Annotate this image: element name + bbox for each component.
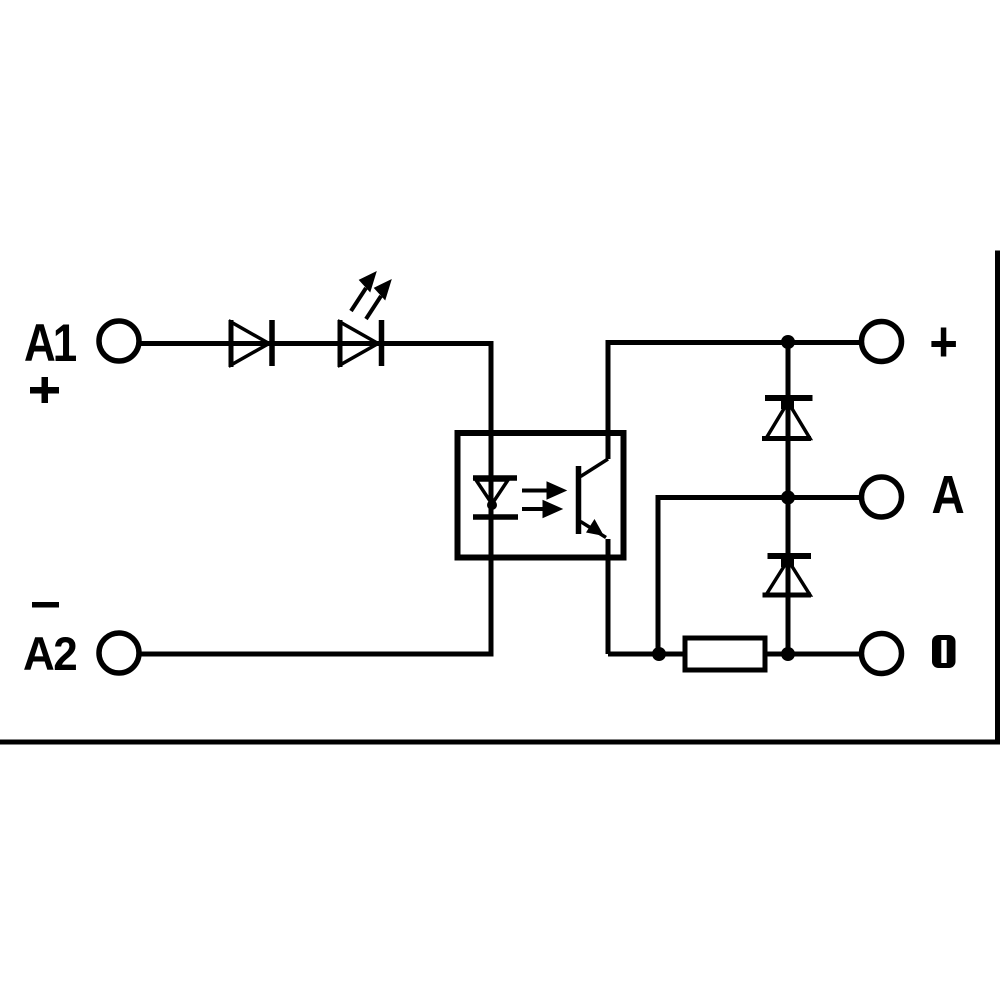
junction dot at bottom wire / A vertical — [652, 647, 666, 661]
label A — [932, 465, 965, 525]
terminal A — [862, 477, 902, 517]
terminal A1 — [99, 321, 139, 361]
optocoupler IR LED — [473, 478, 518, 517]
wire bottom net to 0 terminal — [608, 652, 859, 657]
junction dot at + wire / zener column — [781, 335, 795, 349]
optocoupler light arrows — [522, 482, 566, 518]
wire collector net: + terminal wire and vertical into optocoupler — [608, 343, 859, 460]
LED emission arrows — [351, 272, 391, 319]
svg-text:A: A — [932, 465, 965, 525]
wire node A horizontal and vertical down to bottom net — [658, 498, 859, 655]
resistor R1 — [685, 638, 765, 670]
label minus polarity at A2 — [32, 602, 59, 608]
junction dot at A wire / zener column — [781, 491, 795, 505]
label plus polarity at A1 — [30, 377, 59, 403]
terminal plus — [862, 322, 902, 362]
label A1 — [24, 314, 76, 373]
LED indicator diode — [340, 320, 382, 367]
phototransistor — [579, 459, 609, 538]
zener diode D3 (between + and A) — [762, 398, 813, 439]
diode D1 (series protection diode) — [231, 320, 272, 367]
optocoupler U1 box — [458, 433, 624, 558]
wire emitter vertical to bottom net — [606, 539, 611, 654]
svg-text:A1: A1 — [24, 314, 76, 373]
label 0 — [932, 635, 956, 668]
zener diode D4 (between A and 0) — [763, 556, 812, 595]
label A2 — [23, 627, 76, 680]
terminal A2 — [99, 633, 139, 673]
wire zener column — [786, 343, 791, 655]
junction dot at bottom wire / zener column — [781, 647, 795, 661]
wire A1 to LED column down to A2 wire (input loop) — [141, 344, 491, 655]
label plus — [931, 328, 956, 357]
svg-text:A2: A2 — [23, 627, 76, 680]
terminal 0 — [862, 634, 902, 674]
